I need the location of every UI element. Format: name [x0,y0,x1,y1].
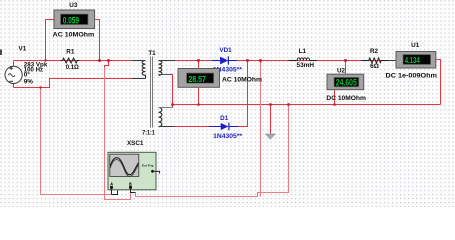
svg-text:4.134: 4.134 [405,56,420,65]
wire U3 right [95,20,100,61]
wire ground stub [270,105,272,134]
wire U4 meter bottom pin [198,87,200,105]
label U1 [411,42,420,49]
wire V1 plus stub [13,61,15,67]
wire U1 right side down to rail [436,60,441,105]
junction top rail at U3 left [44,59,46,61]
value R2 6 Ohm [370,63,379,70]
svg-text:R2: R2 [370,48,379,55]
ammeter U1 [396,52,436,69]
wire V1 bottom to T1 primary bottom [14,79,146,88]
junction top rail at U2 [344,59,347,62]
diode VD1 [212,56,237,64]
oscilloscope XSC1 [108,152,160,190]
label VD1 [219,47,232,54]
value V1 283 Vpk [24,61,48,68]
svg-text:DC 10MOhm: DC 10MOhm [326,95,366,102]
svg-text:L1: L1 [299,48,307,55]
junction top rail at U4 meter [197,59,200,62]
label L1 [299,48,307,55]
svg-text:AC 10MOhm: AC 10MOhm [53,32,95,39]
svg-text:AC 10MOhm: AC 10MOhm [222,77,262,84]
value D1 1N4305 [213,134,243,140]
wire U2 bottom pin [334,90,336,105]
label R2 [370,48,379,55]
wire U2 top pin [345,61,347,75]
scope terminal B stub [131,189,136,193]
junction rail at U4 bottom [197,103,200,106]
svg-text:DC 1e-009Ohm: DC 1e-009Ohm [386,73,438,80]
junction V1 bottom at return [39,86,41,88]
svg-text:T1: T1 [148,50,156,57]
svg-text:U3: U3 [69,2,78,9]
label R1 [66,49,75,56]
svg-text:U2: U2 [337,67,346,74]
svg-text:VD1: VD1 [219,47,232,54]
wire T1 center tap link [159,75,173,108]
label XSC1 [127,140,144,147]
screen edge artifact left [0,50,2,56]
voltmeter U3 [54,10,95,29]
wire output node down toward scope B [260,61,262,197]
scope terminal A stub [112,189,118,195]
svg-text:1N4305**: 1N4305** [213,134,243,140]
svg-text:D1: D1 [220,115,229,122]
junction top rail at output drop [259,59,262,62]
resistor R1 [61,58,80,63]
wire U3 left [46,20,55,61]
svg-text:24.605: 24.605 [336,77,357,87]
voltmeter U4 display [178,69,220,88]
wire left return to scope A [41,88,112,195]
voltage source V1 [5,66,22,83]
resistor R2 [361,58,396,63]
junction top rail at U3 right [98,59,101,62]
diode D1 [209,123,238,131]
value U2 DC 10MOhm [326,95,366,102]
value U1 DC 1e-009Ohm [386,73,438,80]
svg-text:9%: 9% [24,78,34,85]
svg-text:53mH: 53mH [297,62,315,69]
wire jog from top rail down to scope B region [105,61,131,200]
value U4 AC 10MOhm [222,77,262,84]
label V1 [19,46,27,53]
svg-text:Ext Trig: Ext Trig [142,164,153,168]
value R1 0.1 Ohm [66,64,79,71]
ground [265,134,275,140]
wire top rail V1 to T1 primary [14,60,146,62]
wire top rail T1 secondary to U1 [159,60,397,62]
wire U4 meter top pin [198,61,200,69]
label U2 [337,67,346,74]
svg-text:7:1:1: 7:1:1 [142,130,155,136]
value V1 0 deg [24,71,31,79]
junction rail at ground [269,103,272,106]
label U3 [69,2,78,9]
transformer T1 [132,57,175,128]
label T1 [148,50,156,57]
label D1 [220,115,229,122]
value V1 100 Hz [24,67,43,74]
value T1 ratio 7:1:1 [142,130,155,136]
wire rail drop to scope B [136,105,289,197]
svg-text:6Ω: 6Ω [370,63,379,70]
wire D1 cathode up to top rail [238,61,248,127]
value U3 AC 10MOhm [53,32,95,39]
junction rail at center tap [171,103,174,106]
svg-text:XSC1: XSC1 [127,140,144,147]
voltmeter U2 [327,74,364,90]
wire common rail [173,104,441,106]
svg-text:R1: R1 [66,49,75,56]
inductor L1 [289,58,317,61]
svg-text:0.1Ω: 0.1Ω [66,64,79,71]
svg-text:V1: V1 [19,46,27,53]
svg-text:0.059: 0.059 [63,15,79,25]
value VD1 1N4305 [213,67,243,73]
junction top rail at scope jog [107,59,110,62]
junction rail at U2 bottom [333,103,336,106]
junction rail at B drop [287,103,290,106]
value L1 53mH [297,62,315,69]
svg-text:U1: U1 [411,42,420,49]
value V1 9 percent [24,78,34,85]
svg-text:28.57: 28.57 [188,74,206,84]
junction top rail at D1 link [246,59,249,62]
wire T1 secondary bottom to D1 [159,126,209,128]
wire V1 minus stub [13,83,15,87]
